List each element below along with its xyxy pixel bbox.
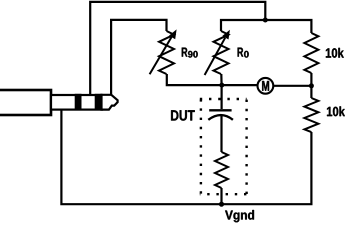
- resistor 10k lower: [304, 98, 318, 132]
- wire: DUT resistor to ground rail: [220, 188, 222, 204]
- wire: meter right lead to divider midpoint: [273, 85, 310, 87]
- meter M: [258, 78, 274, 94]
- node: ring net joins rail 2: [263, 18, 268, 23]
- DUT dotted enclosure: [200, 99, 247, 194]
- wire: rail 2 from R0 top across to 10k top: [221, 20, 311, 33]
- wire: R90 bottom lead and middle wire to meter: [167, 74, 258, 85]
- resistor R90 (variable): [150, 31, 174, 74]
- wire: capacitor to DUT resistor: [220, 115, 222, 152]
- resistor 10k upper: [304, 33, 318, 73]
- label R90: [182, 48, 188, 57]
- wire: tip contact up to rail 1 and across to R90 top: [111, 20, 166, 95]
- audio plug P1 tip: [102, 95, 118, 110]
- label Vgnd: [225, 210, 254, 222]
- label DUT: [171, 110, 195, 120]
- capacitor in DUT: top plate: [209, 109, 231, 111]
- wire: ring contact up, top rail across, down to rail-2 node: [90, 2, 265, 95]
- capacitor in DUT: curved bottom plate: [208, 115, 233, 120]
- label R0: [238, 48, 244, 57]
- value label 10k upper: [326, 48, 344, 58]
- wire: right rail between 10k resistors: [310, 73, 312, 98]
- audio plug P1 body: [0, 90, 51, 115]
- audio plug P1 shaft: [51, 95, 102, 110]
- resistor R0 (variable): [205, 31, 229, 75]
- node: DUT ground junction: [219, 202, 224, 207]
- value label 10k lower: [327, 106, 345, 116]
- audio plug P1 insulator band 2: [95, 94, 103, 110]
- node: divider midpoint junction: [309, 83, 314, 88]
- audio plug P1 insulator band 1: [75, 94, 82, 110]
- wire: sleeve down, bottom ground rail, up to lower 10k: [61, 110, 311, 204]
- wire: R0 bottom lead: [220, 74, 223, 85]
- node: R90/R0 bottoms join DUT top: [219, 83, 224, 88]
- resistor in DUT: [215, 152, 228, 188]
- wire: DUT top lead from junction into box: [221, 85, 223, 109]
